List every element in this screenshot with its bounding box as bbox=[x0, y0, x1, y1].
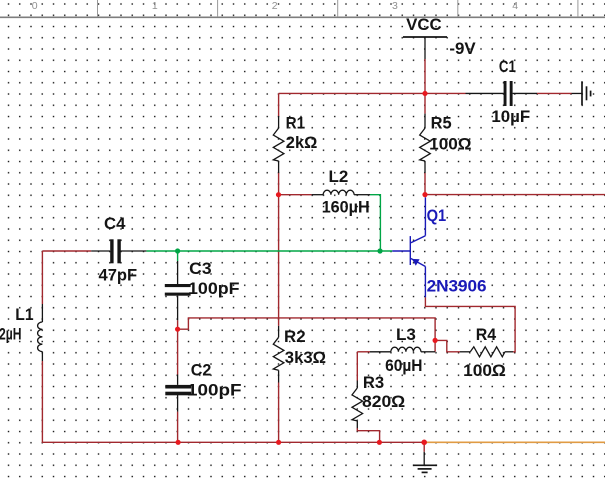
svg-text:L2: L2 bbox=[329, 168, 349, 186]
svg-text:R4: R4 bbox=[476, 326, 497, 344]
svg-text:2: 2 bbox=[272, 0, 278, 12]
svg-text:47pF: 47pF bbox=[99, 266, 138, 284]
svg-text:L1: L1 bbox=[15, 306, 33, 324]
svg-text:-9V: -9V bbox=[449, 40, 475, 58]
svg-text:3: 3 bbox=[392, 0, 398, 12]
svg-text:R2: R2 bbox=[284, 328, 306, 346]
svg-text:3k3Ω: 3k3Ω bbox=[285, 349, 326, 367]
svg-text:C2: C2 bbox=[191, 361, 212, 379]
svg-text:0: 0 bbox=[32, 0, 38, 12]
svg-text:C4: C4 bbox=[104, 215, 126, 233]
svg-text:820Ω: 820Ω bbox=[362, 393, 405, 411]
svg-text:2kΩ: 2kΩ bbox=[286, 134, 318, 152]
svg-text:VCC: VCC bbox=[406, 16, 442, 34]
svg-text:C3: C3 bbox=[189, 260, 211, 278]
svg-text:10µF: 10µF bbox=[491, 108, 530, 126]
svg-text:100pF: 100pF bbox=[188, 280, 240, 298]
svg-text:160µH: 160µH bbox=[322, 198, 370, 216]
svg-text:60µH: 60µH bbox=[385, 357, 422, 375]
svg-text:2µH: 2µH bbox=[0, 326, 22, 344]
svg-text:R5: R5 bbox=[431, 114, 452, 132]
svg-text:100Ω: 100Ω bbox=[463, 362, 506, 380]
svg-text:100Ω: 100Ω bbox=[429, 136, 471, 154]
svg-text:4: 4 bbox=[512, 0, 518, 12]
svg-text:C1: C1 bbox=[499, 58, 516, 76]
svg-text:1: 1 bbox=[152, 0, 158, 12]
svg-text:100pF: 100pF bbox=[187, 381, 242, 399]
svg-text:Q1: Q1 bbox=[427, 207, 447, 225]
svg-text:R3: R3 bbox=[363, 374, 384, 392]
svg-text:2N3906: 2N3906 bbox=[427, 277, 487, 295]
svg-text:L3: L3 bbox=[396, 326, 416, 344]
svg-text:R1: R1 bbox=[286, 114, 306, 132]
